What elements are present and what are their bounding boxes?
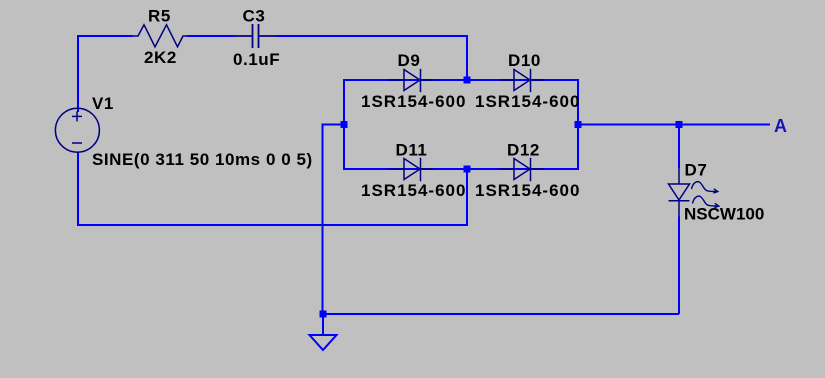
- diode D12: [500, 158, 544, 181]
- svg-text:V1: V1: [92, 94, 114, 113]
- wire output to node A: [578, 124, 770, 126]
- svg-text:1SR154-600: 1SR154-600: [361, 92, 466, 111]
- svg-text:1SR154-600: 1SR154-600: [475, 181, 580, 200]
- junction node at bridge bottom: [464, 166, 471, 173]
- wire bridge left vertical: [343, 79, 345, 170]
- svg-text:SINE(0 311 50 10ms 0 0 5): SINE(0 311 50 10ms 0 0 5): [92, 150, 313, 169]
- svg-text:D7: D7: [685, 161, 708, 180]
- svg-text:1SR154-600: 1SR154-600: [361, 181, 466, 200]
- diode D9: [389, 69, 433, 92]
- svg-text:2K2: 2K2: [144, 48, 177, 67]
- wire V1 bottom vertical: [77, 152, 79, 225]
- LED D7 light arrow 1: [692, 182, 718, 193]
- wire vertical drop into bridge top rail: [466, 35, 468, 80]
- junction node at ground: [320, 311, 327, 318]
- junction node at LED branch: [676, 121, 683, 128]
- wire top-left horizontal from V1 to R5: [78, 35, 133, 37]
- svg-text:0.1uF: 0.1uF: [233, 50, 280, 69]
- svg-text:NSCW100: NSCW100: [684, 205, 764, 224]
- voltage source V1: [55, 108, 99, 152]
- svg-text:C3: C3: [243, 7, 266, 26]
- capacitor C3: [234, 24, 277, 48]
- wire bridge bottom rail: [344, 168, 578, 170]
- wire bridge top rail: [344, 79, 578, 81]
- wire bridge right vertical: [577, 79, 579, 170]
- wire C3 to bridge drop: [277, 35, 467, 37]
- wire bottom horizontal V1 to bridge: [77, 224, 467, 226]
- junction node at bridge top: [464, 77, 471, 84]
- junction node at bridge left mid: [341, 121, 348, 128]
- svg-text:D10: D10: [508, 51, 541, 70]
- LED D7 light arrow 2: [693, 196, 719, 207]
- svg-text:D11: D11: [396, 141, 428, 160]
- wire vertical up to bridge bottom rail: [466, 169, 468, 226]
- junction node at bridge right mid: [575, 121, 582, 128]
- svg-text:D9: D9: [398, 51, 421, 70]
- resistor R5: [133, 25, 188, 47]
- wire left vertical V1 top: [77, 35, 79, 112]
- wire LED branch bottom: [678, 217, 680, 315]
- wire LED branch top: [678, 124, 680, 169]
- diode D10: [500, 69, 544, 92]
- wire ground return horizontal: [323, 313, 679, 315]
- wire long left vertical to ground junction: [322, 124, 324, 315]
- ground: [310, 335, 337, 350]
- diode D11: [389, 158, 433, 181]
- LED D7: [669, 168, 690, 217]
- svg-text:1SR154-600: 1SR154-600: [475, 92, 580, 111]
- wire ground stem: [322, 313, 324, 335]
- svg-text:R5: R5: [148, 7, 171, 26]
- svg-text:A: A: [774, 116, 788, 136]
- wire stub from left mid junction: [323, 124, 345, 126]
- svg-text:D12: D12: [507, 141, 540, 160]
- wire between R5 and C3: [187, 35, 234, 37]
